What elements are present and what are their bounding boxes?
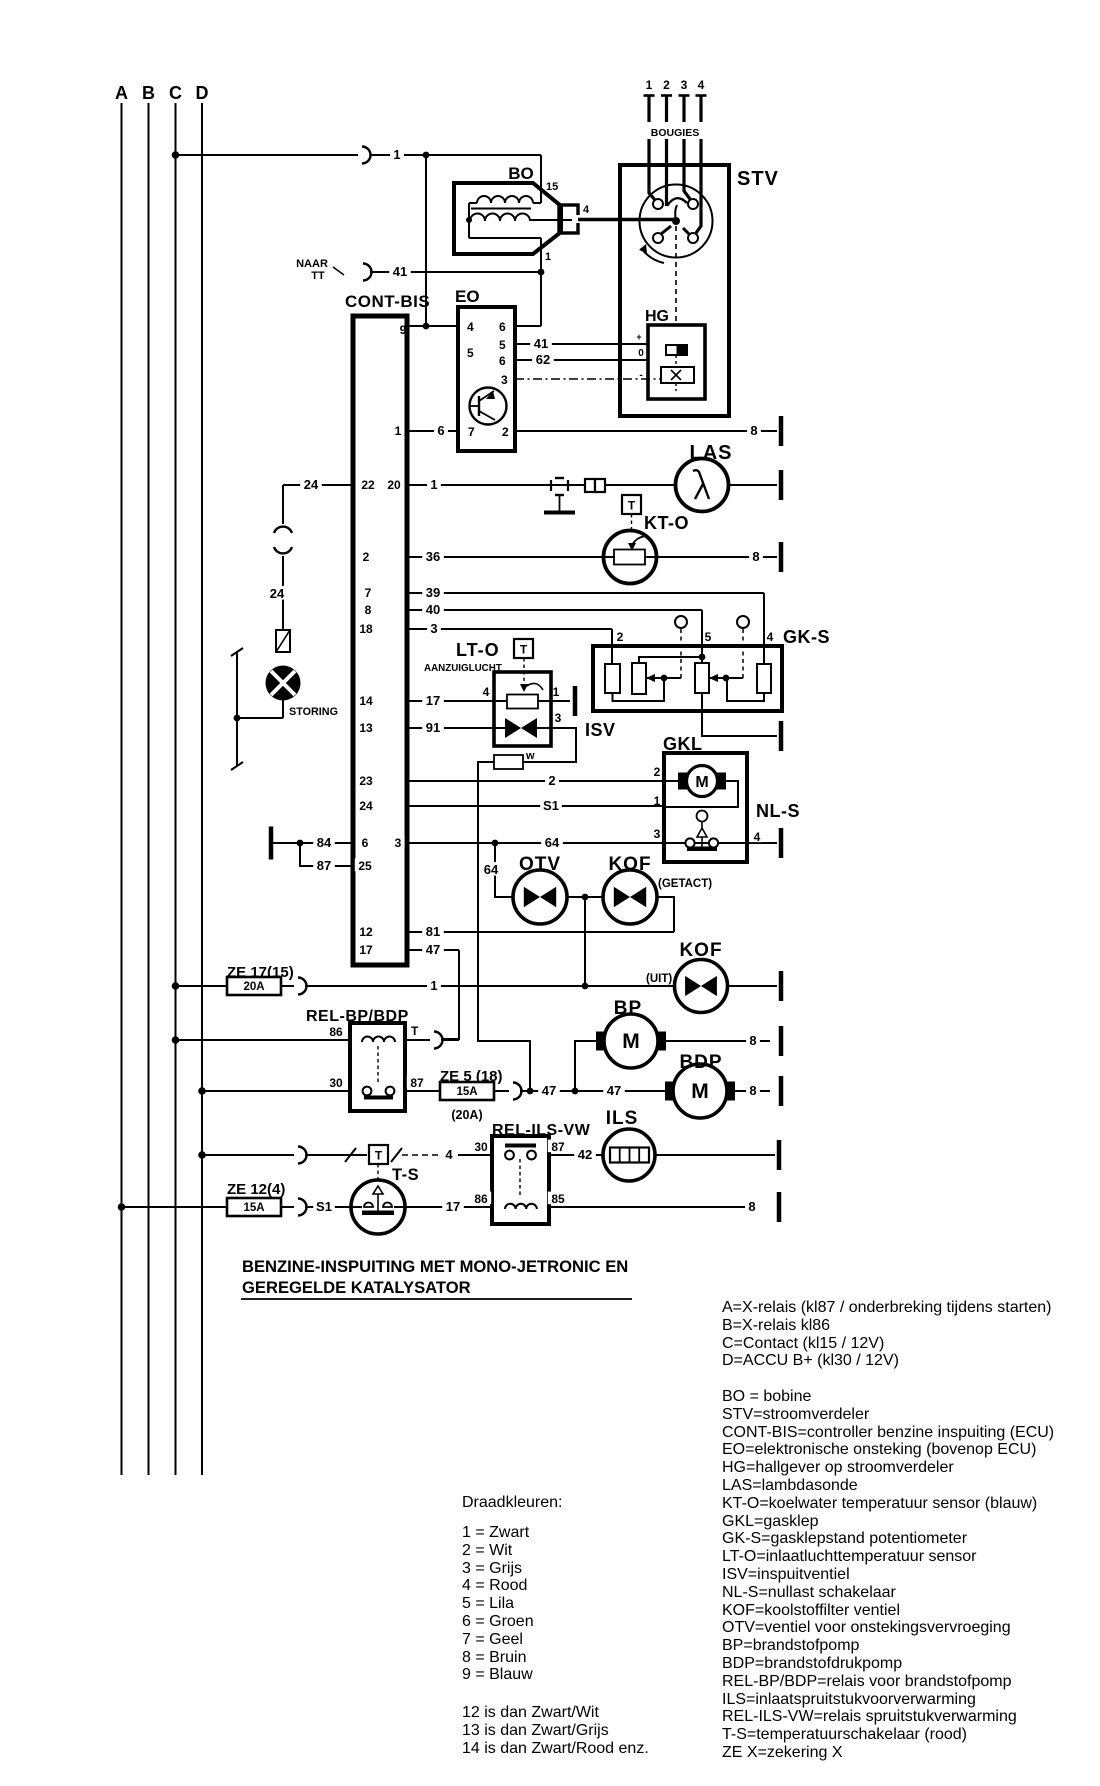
svg-text:2: 2 <box>502 425 509 439</box>
svg-text:CONT-BIS: CONT-BIS <box>345 292 430 311</box>
svg-text:15A: 15A <box>243 1202 264 1214</box>
svg-text:A: A <box>115 83 128 103</box>
svg-text:86: 86 <box>329 1025 343 1039</box>
svg-text:M: M <box>691 1080 709 1103</box>
svg-text:40: 40 <box>426 602 440 617</box>
svg-text:3: 3 <box>555 711 562 725</box>
svg-text:64: 64 <box>484 862 499 877</box>
svg-text:OTV: OTV <box>519 854 561 875</box>
svg-text:85: 85 <box>551 1192 565 1206</box>
svg-text:3: 3 <box>654 827 661 841</box>
svg-text:0: 0 <box>638 348 644 359</box>
svg-text:ZE 12(4): ZE 12(4) <box>227 1181 285 1198</box>
svg-text:6: 6 <box>437 423 444 438</box>
svg-text:62: 62 <box>536 352 550 367</box>
svg-text:7: 7 <box>365 586 372 600</box>
svg-text:1: 1 <box>553 685 560 699</box>
svg-text:GKL: GKL <box>663 734 703 754</box>
svg-text:1: 1 <box>395 424 402 438</box>
svg-text:T: T <box>411 1024 419 1038</box>
svg-text:3: 3 <box>501 373 508 387</box>
svg-text:5: 5 <box>499 338 506 352</box>
svg-text:AANZUIGLUCHT: AANZUIGLUCHT <box>424 663 502 674</box>
svg-text:8: 8 <box>365 603 372 617</box>
svg-text:84: 84 <box>317 835 332 850</box>
svg-text:81: 81 <box>426 924 440 939</box>
svg-text:1: 1 <box>654 794 661 808</box>
svg-text:LAS: LAS <box>690 442 733 464</box>
svg-text:KOF: KOF <box>608 854 651 875</box>
svg-text:T: T <box>375 1149 383 1163</box>
svg-text:2: 2 <box>363 550 370 564</box>
svg-text:NAAR: NAAR <box>296 258 328 270</box>
svg-text:BO: BO <box>508 164 534 183</box>
svg-text:47: 47 <box>542 1083 556 1098</box>
svg-text:T: T <box>520 643 528 657</box>
svg-text:C: C <box>169 83 182 103</box>
svg-text:18: 18 <box>359 622 373 636</box>
svg-text:8: 8 <box>749 1033 756 1048</box>
svg-text:S1: S1 <box>316 1199 332 1214</box>
svg-text:47: 47 <box>426 942 440 957</box>
svg-text:T: T <box>628 499 636 513</box>
svg-text:24: 24 <box>304 477 319 492</box>
svg-text:20: 20 <box>387 478 401 492</box>
svg-text:91: 91 <box>426 720 440 735</box>
svg-text:1: 1 <box>545 251 551 263</box>
svg-text:15A: 15A <box>456 1086 477 1098</box>
svg-text:5: 5 <box>467 346 474 360</box>
svg-text:4: 4 <box>754 830 761 844</box>
svg-text:3: 3 <box>395 836 402 850</box>
svg-text:STORING: STORING <box>289 706 338 718</box>
svg-text:1: 1 <box>430 477 437 492</box>
svg-text:3: 3 <box>681 78 688 92</box>
svg-text:15: 15 <box>546 181 558 193</box>
svg-text:BDP: BDP <box>679 1052 722 1073</box>
svg-text:47: 47 <box>607 1083 621 1098</box>
svg-text:6: 6 <box>362 836 369 850</box>
svg-text:14: 14 <box>359 694 373 708</box>
svg-text:+: + <box>636 332 641 342</box>
svg-text:30: 30 <box>329 1076 343 1090</box>
svg-text:M: M <box>622 1030 640 1053</box>
svg-text:S1: S1 <box>543 798 559 813</box>
svg-text:24: 24 <box>359 799 373 813</box>
svg-text:86: 86 <box>474 1192 488 1206</box>
svg-text:8: 8 <box>748 1199 755 1214</box>
svg-text:36: 36 <box>426 549 440 564</box>
svg-text:4: 4 <box>583 204 590 216</box>
svg-text:6: 6 <box>499 320 506 334</box>
svg-text:2: 2 <box>663 78 670 92</box>
svg-text:8: 8 <box>749 1083 756 1098</box>
svg-text:24: 24 <box>270 586 285 601</box>
svg-text:EO: EO <box>455 287 480 306</box>
svg-text:87: 87 <box>410 1076 424 1090</box>
svg-text:87: 87 <box>317 858 331 873</box>
svg-text:ILS: ILS <box>606 1108 639 1129</box>
svg-text:87: 87 <box>551 1140 565 1154</box>
svg-text:30: 30 <box>474 1140 488 1154</box>
svg-text:KT-O: KT-O <box>644 513 689 533</box>
svg-text:ISV: ISV <box>585 720 616 740</box>
svg-text:4: 4 <box>698 78 705 92</box>
svg-text:64: 64 <box>545 835 560 850</box>
svg-text:22: 22 <box>361 478 375 492</box>
svg-text:BP: BP <box>614 998 642 1019</box>
svg-text:41: 41 <box>393 264 407 279</box>
svg-text:4: 4 <box>767 630 774 644</box>
svg-text:BOUGIES: BOUGIES <box>651 127 699 139</box>
svg-text:STV: STV <box>737 168 779 190</box>
svg-text:20A: 20A <box>243 981 264 993</box>
svg-text:5: 5 <box>705 630 712 644</box>
svg-text:7: 7 <box>468 425 475 439</box>
svg-text:42: 42 <box>578 1147 592 1162</box>
svg-text:8: 8 <box>750 423 757 438</box>
svg-text:2: 2 <box>617 630 624 644</box>
svg-text:GEREGELDE KATALYSATOR: GEREGELDE KATALYSATOR <box>242 1278 471 1297</box>
svg-text:41: 41 <box>534 336 548 351</box>
svg-text:NL-S: NL-S <box>756 801 800 821</box>
svg-text:25: 25 <box>358 859 372 873</box>
svg-text:(UIT): (UIT) <box>646 973 672 985</box>
svg-text:KOF: KOF <box>679 940 722 961</box>
svg-text:1: 1 <box>393 147 400 162</box>
svg-text:D: D <box>196 83 209 103</box>
svg-text:6: 6 <box>499 354 506 368</box>
svg-text:w: w <box>525 750 535 762</box>
svg-text:4: 4 <box>483 685 490 699</box>
svg-text:BENZINE-INSPUITING MET MONO-: BENZINE-INSPUITING MET MONO-JETRONIC EN <box>242 1257 628 1276</box>
svg-text:8: 8 <box>752 549 759 564</box>
svg-text:17: 17 <box>359 943 373 957</box>
svg-text:13: 13 <box>359 721 373 735</box>
svg-text:T-S: T-S <box>392 1166 419 1184</box>
svg-text:17: 17 <box>426 693 440 708</box>
svg-text:(GETACT): (GETACT) <box>658 878 712 890</box>
svg-text:B: B <box>142 83 155 103</box>
svg-text:M: M <box>695 774 708 791</box>
svg-text:4: 4 <box>467 320 474 334</box>
svg-text:1: 1 <box>646 78 653 92</box>
svg-text:12: 12 <box>359 925 373 939</box>
svg-text:3: 3 <box>430 621 437 636</box>
svg-text:1: 1 <box>430 978 437 993</box>
svg-text:4: 4 <box>445 1147 453 1162</box>
svg-text:GK-S: GK-S <box>783 627 830 647</box>
svg-text:HG: HG <box>645 308 669 325</box>
svg-text:TT: TT <box>311 270 325 282</box>
svg-text:39: 39 <box>426 585 440 600</box>
svg-text:2: 2 <box>654 765 661 779</box>
svg-text:LT-O: LT-O <box>456 640 500 660</box>
svg-text:23: 23 <box>359 774 373 788</box>
svg-text:2: 2 <box>548 773 555 788</box>
svg-text:(20A): (20A) <box>451 1108 482 1122</box>
svg-text:17: 17 <box>446 1199 460 1214</box>
